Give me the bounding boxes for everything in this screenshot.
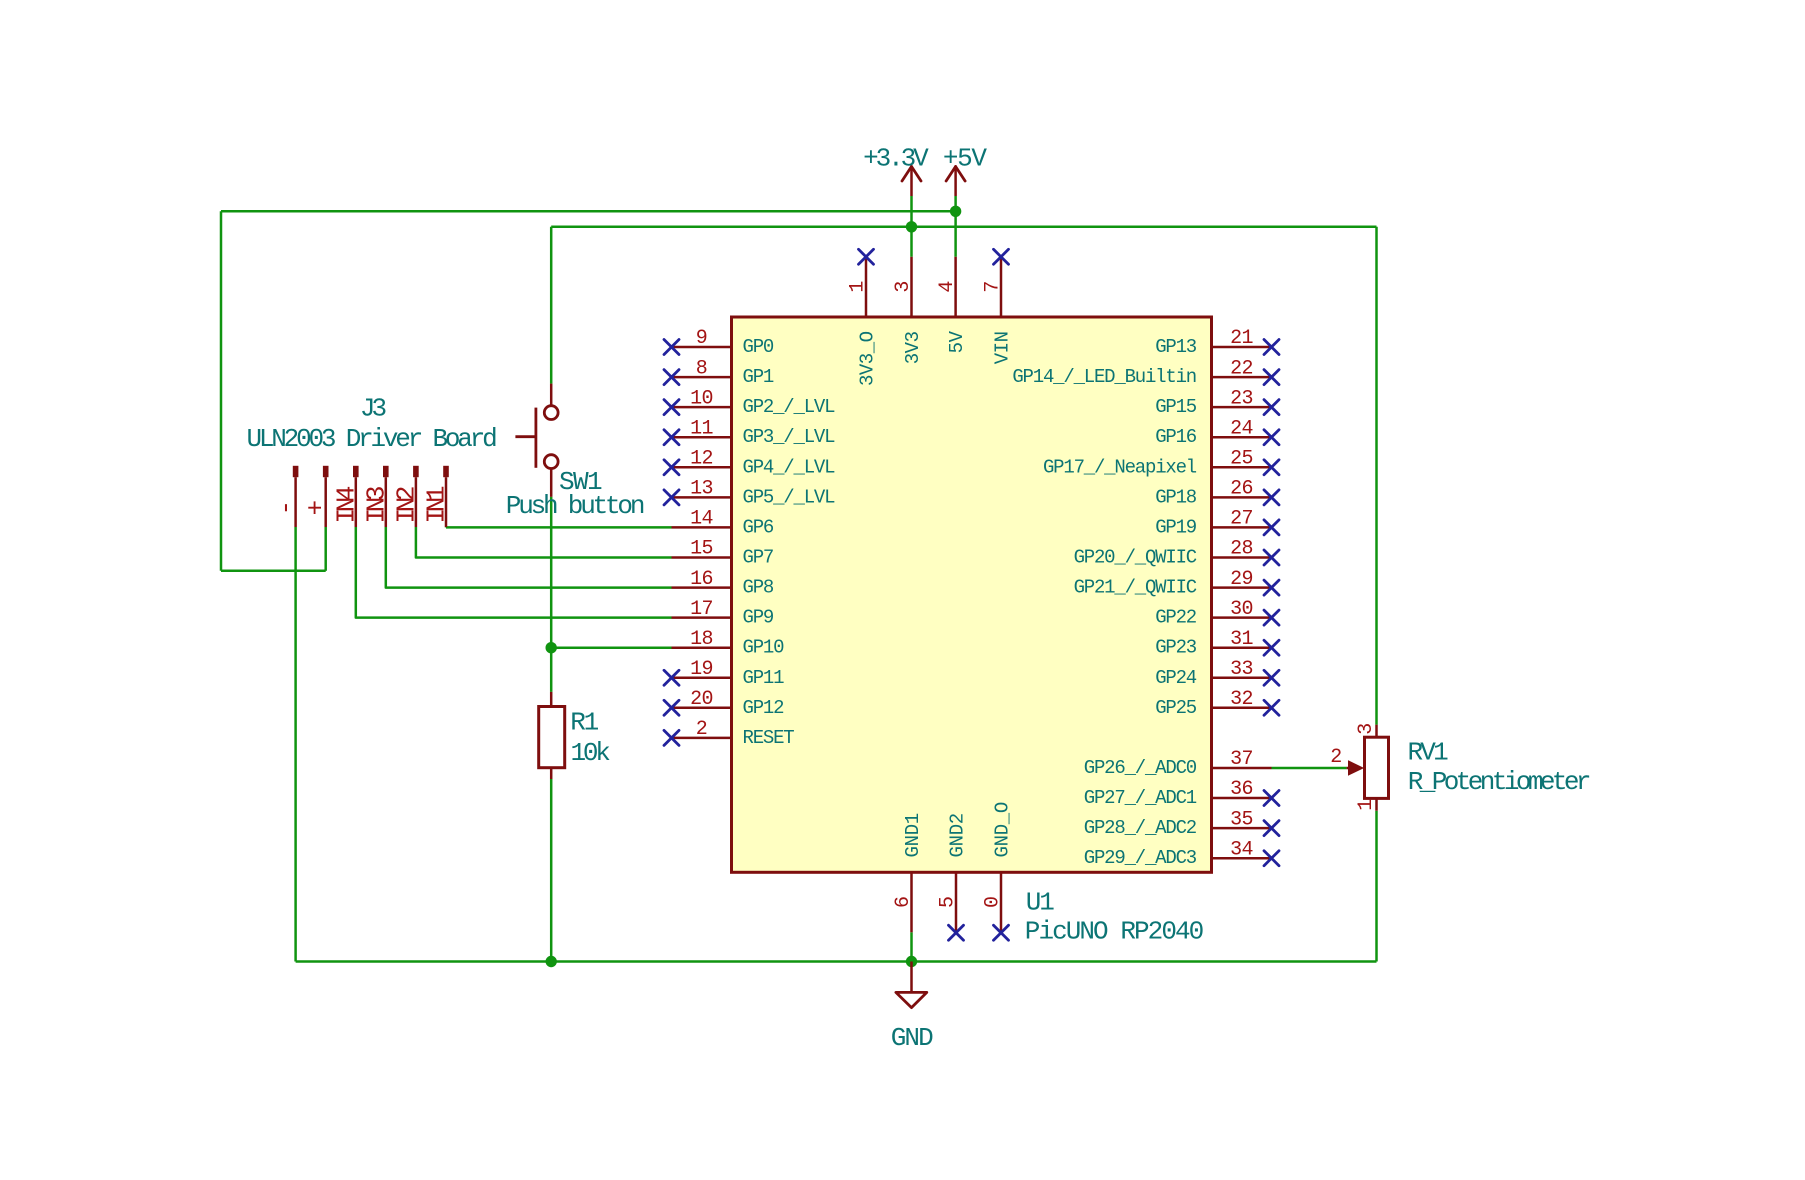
power symbol +3.3V <box>863 144 929 196</box>
op-amp U1 body rectangle PicUNO RP2040 <box>732 317 1212 872</box>
svg-text:GND_O: GND_O <box>992 802 1014 858</box>
U1 pin 7 VIN <box>982 249 1014 364</box>
U1 pin 8 GP1 <box>664 357 774 388</box>
J3 pin IN2 <box>392 466 422 527</box>
J3 pin IN4 <box>331 466 361 527</box>
wire IN2 to GP7 <box>416 527 672 558</box>
U1 pin 27 GP19 <box>1155 508 1279 539</box>
svg-text:Push button: Push button <box>506 491 644 521</box>
svg-text:11: 11 <box>690 417 713 440</box>
U1 pin 34 GP29_/_ADC3 <box>1084 838 1279 869</box>
junction +5V rail / arrow <box>950 206 961 217</box>
svg-text:GP28_/_ADC2: GP28_/_ADC2 <box>1084 817 1197 839</box>
U1 pin 11 GP3_/_LVL <box>664 417 835 448</box>
svg-text:RESET: RESET <box>743 727 795 749</box>
svg-text:16: 16 <box>690 568 713 591</box>
U1 pin 31 GP23 <box>1155 628 1279 659</box>
svg-text:1: 1 <box>847 281 870 293</box>
svg-text:GP11: GP11 <box>743 667 785 689</box>
U1 pin 20 GP12 <box>664 688 784 719</box>
J3 pin - <box>271 466 301 527</box>
junction R1 bottom / GND rail <box>546 956 557 967</box>
resistor R1 <box>539 692 565 779</box>
U1 pin 24 GP16 <box>1155 417 1279 448</box>
U1 pin 14 GP6 <box>672 508 774 539</box>
svg-text:5: 5 <box>937 897 960 908</box>
U1 pin 17 GP9 <box>672 598 774 629</box>
svg-text:36: 36 <box>1230 778 1253 801</box>
U1 pin 10 GP2_/_LVL <box>664 387 835 418</box>
U1 pin 15 GP7 <box>672 538 774 569</box>
svg-text:GP24: GP24 <box>1155 667 1197 689</box>
svg-text:24: 24 <box>1230 417 1253 440</box>
svg-text:33: 33 <box>1230 658 1253 681</box>
wire 3.3V rail to RV1 pin3 <box>1375 227 1378 725</box>
svg-text:2: 2 <box>696 718 707 741</box>
wire GND1 pin to rail <box>910 932 913 961</box>
switch SW1 push button <box>515 384 558 497</box>
svg-text:PicUNO RP2040: PicUNO RP2040 <box>1025 917 1203 947</box>
wire IN4 to GP9 <box>356 527 672 618</box>
svg-text:3: 3 <box>892 281 915 292</box>
U1 pin 6 GND1 <box>892 813 924 932</box>
U1 pin 18 GP10 <box>672 628 785 659</box>
J3 pin IN1 <box>422 466 452 527</box>
wire IN1 to GP6 <box>445 526 448 529</box>
svg-text:GP15: GP15 <box>1155 396 1197 418</box>
svg-text:GP29_/_ADC3: GP29_/_ADC3 <box>1084 847 1197 869</box>
svg-text:GP18: GP18 <box>1155 486 1197 508</box>
U1 pin 16 GP8 <box>672 568 774 599</box>
svg-text:23: 23 <box>1230 387 1253 410</box>
junction +3.3V rail / arrow <box>906 221 917 232</box>
U1 pin 25 GP17_/_Neapixel <box>1043 448 1279 479</box>
U1 pin 12 GP4_/_LVL <box>664 448 835 479</box>
svg-text:30: 30 <box>1230 598 1253 621</box>
wire RV1 pin1 to GND rail <box>1375 811 1378 962</box>
svg-text:25: 25 <box>1230 448 1253 471</box>
svg-text:3V3_O: 3V3_O <box>857 331 879 386</box>
U1 pin 2 RESET <box>664 718 794 749</box>
svg-text:GP17_/_Neapixel: GP17_/_Neapixel <box>1043 456 1197 478</box>
U1 pin 37 GP26_/_ADC0 <box>1084 748 1272 779</box>
svg-text:37: 37 <box>1230 748 1253 771</box>
svg-text:GP3_/_LVL: GP3_/_LVL <box>743 426 836 448</box>
svg-text:6: 6 <box>892 897 915 908</box>
svg-text:5V: 5V <box>946 330 968 353</box>
svg-text:GND: GND <box>891 1023 933 1053</box>
svg-text:21: 21 <box>1230 327 1253 350</box>
wire bottom GND rail <box>296 960 1377 963</box>
U1 pin 35 GP28_/_ADC2 <box>1084 808 1279 839</box>
svg-text:GP1: GP1 <box>743 366 774 388</box>
svg-text:GP27_/_ADC1: GP27_/_ADC1 <box>1084 787 1197 809</box>
svg-text:0: 0 <box>982 897 1005 908</box>
wire SW1 top <box>550 227 553 384</box>
U1 pin 30 GP22 <box>1155 598 1279 629</box>
svg-text:8: 8 <box>696 357 707 380</box>
svg-text:R1: R1 <box>570 708 598 738</box>
wire +5V arrow to pin 4 <box>954 196 957 257</box>
svg-text:10k: 10k <box>571 738 611 768</box>
svg-text:20: 20 <box>690 688 713 711</box>
svg-text:GP8: GP8 <box>743 577 774 599</box>
svg-text:GP5_/_LVL: GP5_/_LVL <box>743 486 836 508</box>
svg-text:GP21_/_QWIIC: GP21_/_QWIIC <box>1074 577 1197 599</box>
svg-text:7: 7 <box>982 281 1005 292</box>
svg-text:GND1: GND1 <box>902 813 924 857</box>
svg-text:J3: J3 <box>360 394 386 424</box>
svg-text:2: 2 <box>1330 746 1341 769</box>
U1 pin 19 GP11 <box>664 658 784 689</box>
svg-text:27: 27 <box>1230 508 1253 531</box>
U1 pin 29 GP21_/_QWIIC <box>1074 568 1279 599</box>
svg-text:17: 17 <box>690 598 713 621</box>
svg-text:IN3: IN3 <box>361 487 391 523</box>
svg-text:GP23: GP23 <box>1155 637 1197 659</box>
wire R1 bottom to GND rail <box>550 779 553 962</box>
svg-text:GP2_/_LVL: GP2_/_LVL <box>743 396 836 418</box>
U1 pin 21 GP13 <box>1155 327 1279 358</box>
svg-text:28: 28 <box>1230 538 1253 561</box>
svg-text:+5V: +5V <box>943 144 988 174</box>
svg-text:VIN: VIN <box>992 332 1014 365</box>
svg-text:31: 31 <box>1230 628 1253 651</box>
svg-text:9: 9 <box>696 327 707 350</box>
wire J3 plus vertical <box>324 527 327 571</box>
svg-text:19: 19 <box>690 658 713 681</box>
U1 pin 33 GP24 <box>1155 658 1279 689</box>
svg-text:ULN2003 Driver Board: ULN2003 Driver Board <box>246 424 496 454</box>
svg-text:-: - <box>271 504 301 516</box>
svg-text:3V3: 3V3 <box>902 331 924 364</box>
svg-text:IN2: IN2 <box>392 487 422 523</box>
wire SW1 bottom to junction <box>550 497 553 648</box>
svg-text:35: 35 <box>1230 808 1253 831</box>
wire junction to GP10 <box>551 646 671 649</box>
U1 pin 26 GP18 <box>1155 478 1279 509</box>
U1 pin 28 GP20_/_QWIIC <box>1074 538 1279 569</box>
J3 pin IN3 <box>361 466 391 527</box>
svg-text:34: 34 <box>1230 838 1253 861</box>
svg-text:GP7: GP7 <box>743 547 774 569</box>
svg-text:GP9: GP9 <box>743 607 774 629</box>
J3 pin + <box>301 466 331 527</box>
ground symbol GND <box>891 962 933 1053</box>
wire IN3 to GP8 <box>386 527 672 588</box>
U1 pin 5 GND2 <box>937 813 969 940</box>
U1 pin 22 GP14_/_LED_Builtin <box>1012 357 1279 388</box>
svg-text:U1: U1 <box>1026 887 1054 917</box>
svg-text:GP19: GP19 <box>1155 516 1197 538</box>
svg-text:29: 29 <box>1230 568 1253 591</box>
U1 pin 36 GP27_/_ADC1 <box>1084 778 1279 809</box>
svg-text:12: 12 <box>690 448 713 471</box>
U1 pin 3 3V3 <box>892 257 924 364</box>
wire +5V to J3 plus <box>221 570 326 573</box>
svg-text:GP25: GP25 <box>1155 697 1197 719</box>
svg-text:R_Potentiometer: R_Potentiometer <box>1408 767 1590 797</box>
U1 pin 0 GND_O <box>982 802 1014 940</box>
wire +5V top rail <box>221 210 956 213</box>
U1 pin 4 5V <box>936 257 968 354</box>
power symbol +5V <box>943 144 988 196</box>
svg-text:32: 32 <box>1230 688 1253 711</box>
potentiometer RV1 <box>1347 725 1389 811</box>
wire +3.3V rail <box>551 226 1376 229</box>
svg-text:GP14_/_LED_Builtin: GP14_/_LED_Builtin <box>1012 366 1196 388</box>
svg-text:GP4_/_LVL: GP4_/_LVL <box>743 456 836 478</box>
svg-text:GP12: GP12 <box>743 697 785 719</box>
svg-text:13: 13 <box>690 478 713 501</box>
svg-text:18: 18 <box>690 628 713 651</box>
wire junction to R1 <box>550 648 553 692</box>
U1 pin 1 3V3_O <box>847 249 879 386</box>
U1 pin 13 GP5_/_LVL <box>664 478 835 509</box>
svg-text:RV1: RV1 <box>1408 737 1449 767</box>
svg-text:IN1: IN1 <box>422 486 452 523</box>
U1 pin 23 GP15 <box>1155 387 1279 418</box>
svg-text:IN4: IN4 <box>331 486 361 523</box>
junction GND pin / rail <box>906 956 917 967</box>
wire +5V left drop <box>220 211 223 571</box>
junction SW1 / R1 / GP10 <box>546 642 557 653</box>
svg-text:15: 15 <box>690 538 713 561</box>
svg-text:1: 1 <box>1355 799 1378 811</box>
wire GP26 to RV1 wiper <box>1272 767 1347 770</box>
svg-text:3: 3 <box>1355 723 1378 734</box>
svg-text:GP13: GP13 <box>1155 336 1197 358</box>
svg-text:GP26_/_ADC0: GP26_/_ADC0 <box>1084 757 1197 779</box>
svg-text:GND2: GND2 <box>947 813 969 857</box>
svg-text:14: 14 <box>690 508 713 531</box>
U1 pin 32 GP25 <box>1155 688 1279 719</box>
U1 pin 9 GP0 <box>664 327 774 358</box>
svg-text:GP16: GP16 <box>1155 426 1197 448</box>
wire J3 minus drop <box>294 527 297 962</box>
svg-text:GP0: GP0 <box>743 336 774 358</box>
svg-text:GP10: GP10 <box>743 637 785 659</box>
svg-text:26: 26 <box>1230 478 1253 501</box>
svg-text:22: 22 <box>1230 357 1253 380</box>
svg-text:10: 10 <box>690 387 713 410</box>
svg-text:GP20_/_QWIIC: GP20_/_QWIIC <box>1074 547 1197 569</box>
svg-text:GP6: GP6 <box>743 516 774 538</box>
svg-text:4: 4 <box>936 281 959 292</box>
svg-text:GP22: GP22 <box>1155 607 1197 629</box>
wire +3.3V arrow to pin 3 <box>910 196 913 257</box>
svg-text:+3.3V: +3.3V <box>863 144 929 174</box>
